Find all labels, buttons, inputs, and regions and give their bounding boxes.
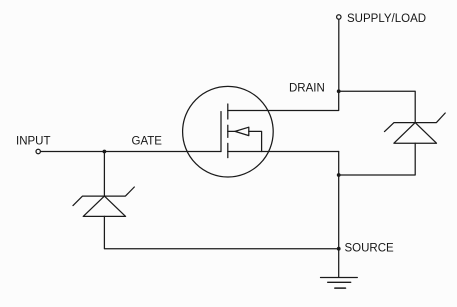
zener diode D2 cathode bar xyxy=(385,113,446,132)
wire gate-to-zener D1 xyxy=(103,152,105,197)
transistor Q1 body lead xyxy=(228,130,235,132)
node drain junction (dot) xyxy=(337,89,341,93)
node bottom rail junction (dot) xyxy=(337,247,341,251)
wire zener D1 anode-to-source rail xyxy=(104,216,338,248)
wire source vertical xyxy=(338,152,340,278)
transistor Q1 body arrow xyxy=(235,127,249,135)
wire input-to-gate xyxy=(41,151,221,153)
transistor Q1 channel top segment xyxy=(227,104,229,119)
wire body-to-source xyxy=(249,131,262,151)
svg-text:SUPPLY/LOAD: SUPPLY/LOAD xyxy=(347,13,426,25)
node source junction (dot) xyxy=(337,173,341,177)
wire zener D2 anode-to-source xyxy=(339,143,416,175)
wire drain tap xyxy=(228,91,339,110)
wire source tap xyxy=(228,151,339,153)
ground xyxy=(321,278,358,289)
zener diode D1 cathode bar xyxy=(73,187,134,206)
terminal INPUT (open circle) xyxy=(36,149,40,153)
svg-text:DRAIN: DRAIN xyxy=(289,83,325,95)
terminal SUPPLY/LOAD (open circle) xyxy=(337,15,341,19)
svg-text:INPUT: INPUT xyxy=(16,136,51,148)
zener diode D2 anode triangle xyxy=(394,123,437,144)
op-amp body circle of MOSFET Q1 xyxy=(183,86,274,177)
transistor Q1 channel middle segment xyxy=(227,125,229,137)
transistor Q1 channel bottom segment xyxy=(227,143,229,157)
wire drain-to-zener D2 xyxy=(339,91,416,122)
transistor Q1 gate plate xyxy=(220,112,222,152)
svg-text:GATE: GATE xyxy=(132,136,163,148)
node gate junction (dot) xyxy=(103,150,107,154)
wire supply vertical xyxy=(338,19,340,91)
svg-text:SOURCE: SOURCE xyxy=(345,243,395,255)
zener diode D1 anode triangle xyxy=(83,196,125,216)
